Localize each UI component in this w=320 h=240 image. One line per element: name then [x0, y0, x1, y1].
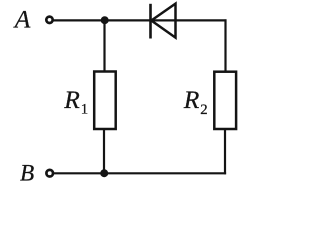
junction dot at bottom node: [100, 169, 108, 177]
R2 value label: [183, 85, 208, 118]
terminal B (open circle): [46, 170, 53, 177]
svg-text:B: B: [20, 160, 34, 186]
svg-text:1: 1: [81, 102, 88, 118]
wire: top horizontal from A to top-right corner: [53, 19, 227, 21]
wire: vertical from R1 down to bottom wire: [103, 129, 105, 174]
svg-text:2: 2: [200, 102, 207, 118]
resistor R1 (rectangle): [94, 72, 116, 130]
wire: right vertical from R2 down to bottom-right corner: [224, 129, 226, 174]
resistor R2 (rectangle): [214, 72, 236, 129]
wire: right vertical from top-right corner down to R2: [224, 19, 226, 72]
svg-text:R: R: [63, 85, 80, 114]
terminal A (open circle): [46, 17, 52, 23]
svg-text:R: R: [183, 85, 200, 114]
junction dot at top node: [101, 16, 109, 24]
wire: vertical from top junction down to R1: [103, 20, 105, 72]
wire: bottom horizontal from B to bottom-right corner: [54, 172, 227, 174]
svg-text:A: A: [13, 5, 31, 34]
R1 value label: [63, 85, 88, 118]
diode D (cathode bar): [149, 4, 152, 39]
diode D (triangle, anode on right pointing left): [151, 4, 175, 38]
